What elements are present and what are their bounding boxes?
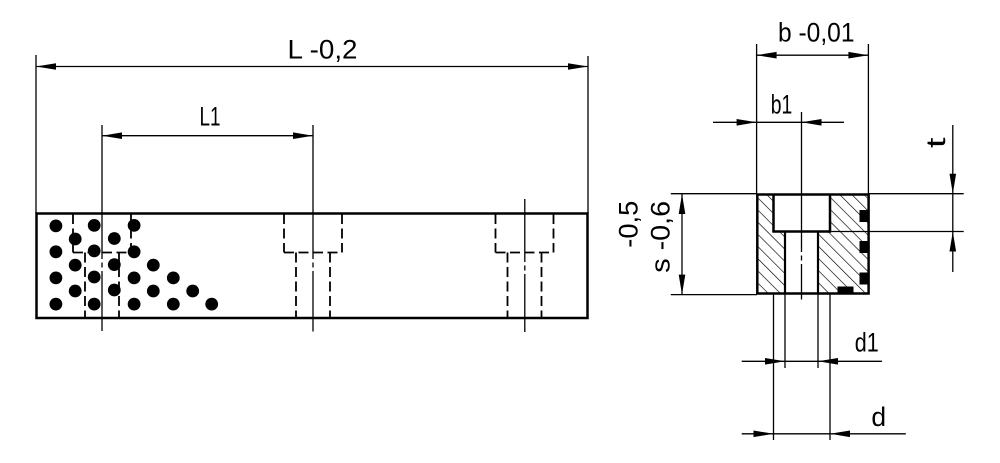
plate outline (side view): [37, 214, 588, 319]
svg-text:L1: L1: [200, 101, 221, 131]
dimension L1: [102, 101, 313, 139]
through hole sides (section): [785, 232, 818, 294]
dimension d: [742, 294, 906, 440]
dimension t: [831, 125, 964, 272]
counterbore profile (section): [772, 195, 831, 232]
hole 2 centerline: [312, 125, 314, 332]
hole 3 centerline: [524, 199, 526, 332]
svg-text:t: t: [921, 137, 951, 148]
svg-text:b1: b1: [771, 90, 793, 120]
hole 3 hidden counterbore (dashed): [496, 214, 554, 317]
dimension b -0,01: [757, 18, 869, 194]
hole 1 centerline: [101, 125, 103, 331]
dimension d1: [742, 294, 882, 368]
svg-text:d1: d1: [855, 327, 879, 357]
svg-text:s -0,6: s -0,6: [646, 201, 676, 273]
dimension s -0,6 / -0,5: [614, 194, 758, 295]
graphite plug dots (top rows pattern): [50, 219, 219, 311]
dimension b1: [713, 90, 844, 126]
svg-text:L -0,2: L -0,2: [288, 35, 358, 65]
left hatch area: [757, 195, 785, 294]
svg-text:d: d: [871, 402, 886, 432]
sectioned graphite plugs (black squares): [838, 210, 869, 294]
right hatch area: [818, 195, 869, 294]
section centerline: [801, 112, 803, 300]
hole 1 hidden counterbore (dashed): [73, 214, 131, 317]
dimension L -0,2: [36, 35, 588, 214]
svg-text:b -0,01: b -0,01: [778, 18, 855, 48]
section outline (cross-section view): [757, 195, 868, 294]
hole 2 hidden counterbore (dashed): [284, 214, 342, 317]
svg-text:-0,5: -0,5: [614, 201, 644, 248]
